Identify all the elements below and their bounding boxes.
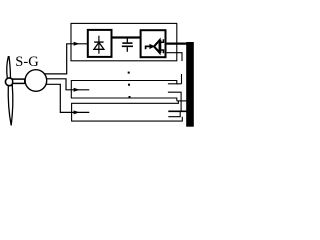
shaft — [13, 79, 25, 83]
diode D1 vertical wire — [98, 36, 100, 54]
bus bar — [186, 42, 194, 127]
IGBT emitter lead — [160, 50, 163, 53]
vertical link V1 — [181, 74, 183, 84]
bus link wire A — [177, 100, 187, 102]
capacitor C plate top — [122, 42, 132, 44]
inverter box — [141, 30, 166, 57]
box1 output stub lower — [168, 92, 181, 111]
label S-G — [15, 54, 38, 71]
turbine top blade — [7, 57, 11, 79]
converter outer box — [71, 23, 177, 60]
ellipsis dot 2 — [128, 84, 130, 86]
DC link wire — [112, 36, 141, 38]
wire gen to box2 — [46, 84, 90, 112]
turbine bottom blade — [8, 86, 13, 126]
capacitor C stem top — [126, 38, 128, 43]
IGBT solid arrow — [149, 44, 155, 49]
arrow into box2 — [74, 110, 80, 114]
generator G1 circle — [25, 70, 47, 92]
turbine hub — [5, 78, 13, 86]
converter aux stub down — [166, 53, 183, 61]
box2 output stub lower — [168, 111, 180, 116]
ellipsis dot 1 — [128, 72, 130, 74]
box1 converter unit outline — [71, 81, 177, 101]
ellipsis dot 3 — [129, 96, 131, 98]
IGBT collector lead — [160, 39, 163, 42]
capacitor C stem bottom — [126, 47, 128, 52]
converter main output wire to bus — [166, 42, 187, 44]
box2 output stub upper to bus — [168, 110, 186, 112]
arrow into converter — [74, 42, 80, 46]
diode D1 triangle — [94, 42, 104, 49]
IGBT body triangle — [154, 40, 160, 52]
arrow into box1 — [74, 88, 80, 92]
wire gen to box1 — [46, 79, 89, 90]
IGBT bar — [159, 40, 161, 53]
rectifier box — [88, 30, 112, 57]
wire gen to converter input — [44, 44, 87, 74]
IGBT gate lead — [146, 46, 151, 49]
box2 converter unit outline — [72, 101, 183, 121]
box1 output stub upper — [168, 83, 182, 85]
capacitor C plate bottom — [122, 45, 133, 47]
diode D1 cathode bar — [94, 41, 103, 43]
